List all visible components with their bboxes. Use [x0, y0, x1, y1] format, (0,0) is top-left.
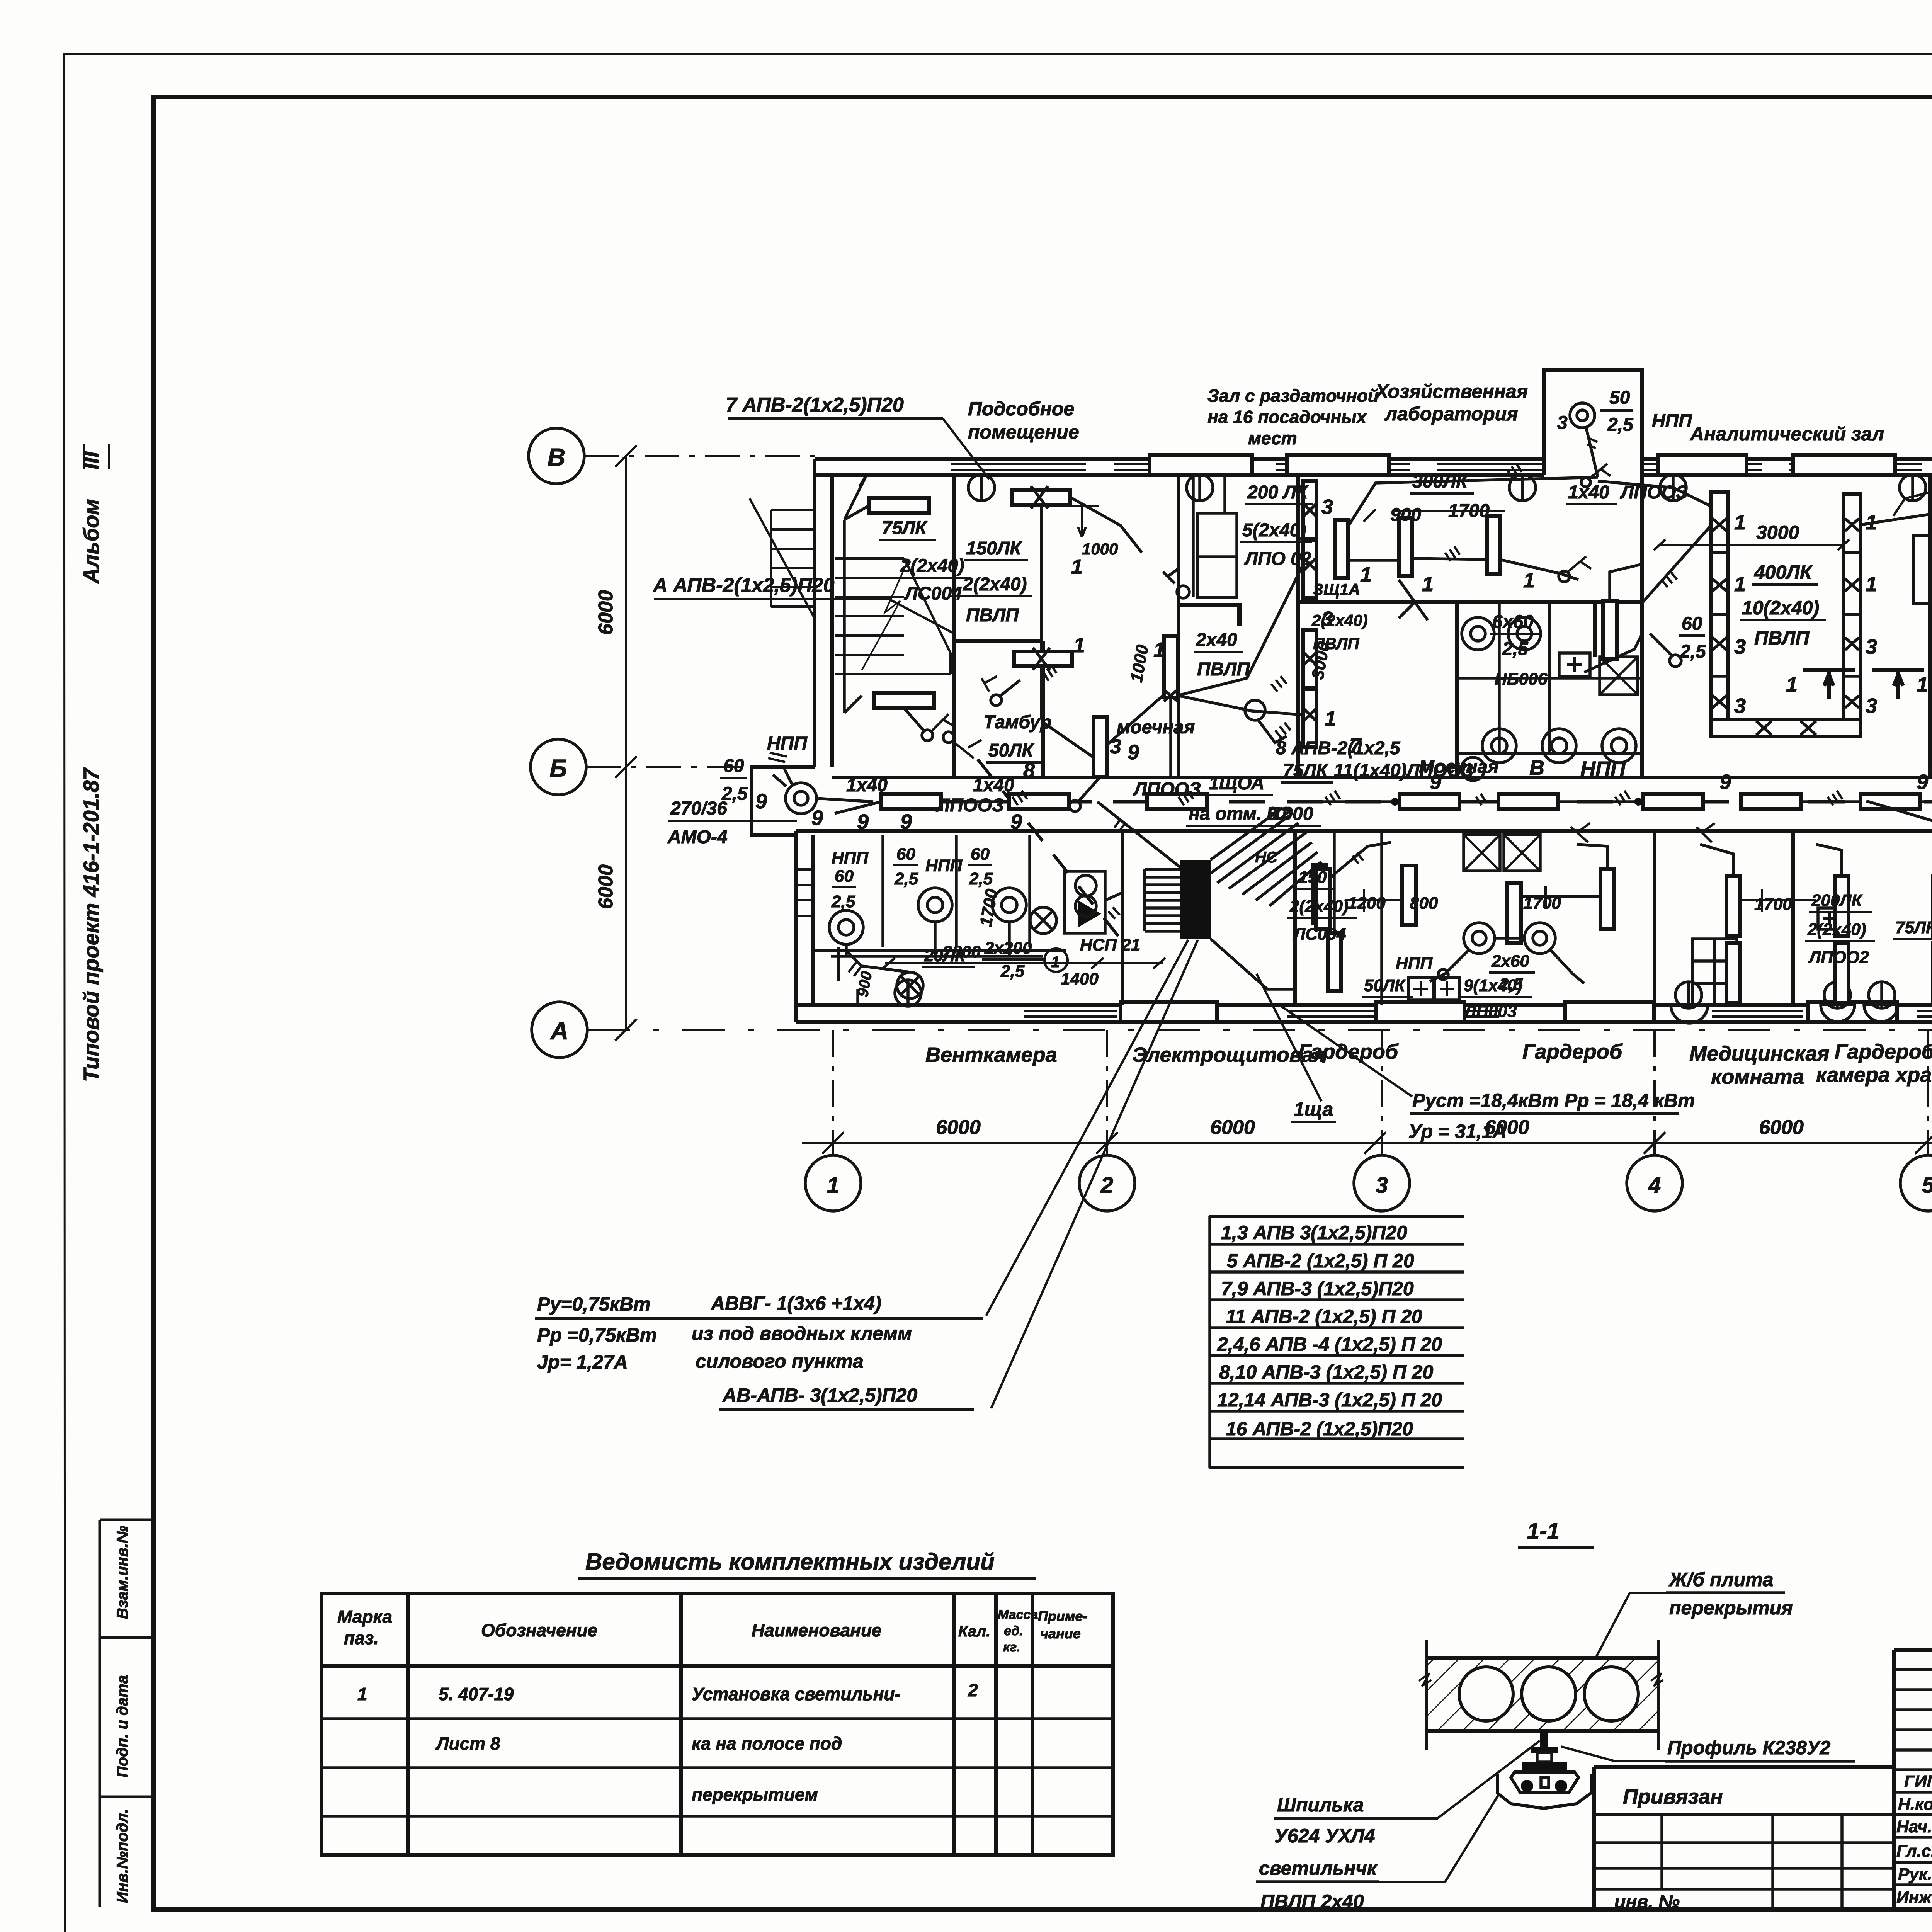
- svg-text:2,5: 2,5: [894, 869, 918, 888]
- svg-text:7 АПВ-2(1х2,5)П20: 7 АПВ-2(1х2,5)П20: [726, 394, 904, 416]
- svg-text:ЛПООЗ: ЛПООЗ: [936, 795, 1004, 816]
- svg-text:5: 5: [1922, 1173, 1932, 1198]
- svg-text:ЛС004: ЛС004: [1293, 925, 1346, 944]
- svg-text:ЗЩ1А: ЗЩ1А: [1313, 580, 1360, 599]
- ventkamera labels: [831, 845, 1140, 998]
- washroom block walls: [1298, 602, 1642, 777]
- svg-text:2: 2: [968, 1680, 978, 1700]
- lab room fixtures: [1335, 509, 1591, 582]
- svg-text:ка на полосе под: ка на полосе под: [692, 1733, 842, 1753]
- roof box protrusion top center: [1544, 370, 1642, 475]
- svg-text:на 16 посадочных: на 16 посадочных: [1207, 407, 1367, 427]
- svg-text:1ща: 1ща: [1294, 1099, 1333, 1120]
- partition med/garderob2: [1791, 831, 1795, 1005]
- svg-text:2,5: 2,5: [831, 892, 855, 911]
- analytic labels: [1734, 482, 1932, 718]
- top left cable label: [726, 394, 904, 416]
- bottom exterior wall left part: [796, 1005, 1932, 1022]
- svg-text:Электрощитовая: Электрощитовая: [1132, 1043, 1326, 1066]
- svg-text:Ж/б плита: Ж/б плита: [1668, 1569, 1774, 1590]
- svg-text:Ведомисть комплектных изделий: Ведомисть комплектных изделий: [585, 1549, 995, 1575]
- podsobnoe labels: [961, 538, 1201, 799]
- zal labels: [1153, 482, 1336, 730]
- svg-text:Наименование: Наименование: [752, 1620, 882, 1640]
- electro labels: [1255, 849, 1413, 997]
- analytic dim 3000 line: [1654, 539, 1849, 550]
- svg-text:из под вводных клемм: из под вводных клемм: [692, 1323, 912, 1344]
- room1 labels: [879, 518, 969, 604]
- svg-text:ЛПООЗ: ЛПООЗ: [1620, 482, 1688, 503]
- svg-text:1: 1: [1153, 638, 1165, 662]
- svg-text:паз.: паз.: [344, 1628, 379, 1648]
- svg-text:1,3 АПВ 3(1х2,5)П20: 1,3 АПВ 3(1х2,5)П20: [1221, 1222, 1407, 1243]
- svg-text:Гл.спец.: Гл.спец.: [1896, 1842, 1932, 1861]
- analytic U luminaire right column: [1844, 494, 1861, 735]
- svg-text:5. 407-19: 5. 407-19: [439, 1684, 514, 1704]
- svg-text:инв. №: инв. №: [1614, 1892, 1680, 1912]
- svg-text:Привязан: Привязан: [1623, 1785, 1723, 1808]
- dashed wire across corridor from room1: [978, 759, 1121, 939]
- cable list table: [1209, 1216, 1464, 1468]
- hanging luminaire in section: [1497, 1731, 1591, 1808]
- vertical dimension line with 6000 marks: [595, 445, 637, 1041]
- power note under plan: [1291, 1090, 1695, 1142]
- left corridor annex: [752, 767, 815, 835]
- partition ventkamera/electro: [1121, 831, 1124, 1005]
- svg-text:2(2х40): 2(2х40): [1311, 611, 1368, 629]
- svg-text:400ЛК: 400ЛК: [1754, 561, 1813, 583]
- svg-text:1: 1: [357, 1684, 367, 1704]
- svg-text:Альбом: Альбом: [79, 499, 103, 584]
- svg-text:Нач.отд.: Нач.отд.: [1896, 1817, 1932, 1836]
- svg-text:1: 1: [1422, 573, 1434, 596]
- svg-text:Венткамера: Венткамера: [925, 1043, 1057, 1066]
- svg-text:4: 4: [1648, 1173, 1661, 1198]
- svg-text:Взам.инв.№: Взам.инв.№: [114, 1526, 131, 1619]
- svg-text:У624 УХЛ4: У624 УХЛ4: [1274, 1825, 1375, 1847]
- corridor wiring dashed run: [881, 800, 1932, 804]
- svg-text:1ЩОА: 1ЩОА: [1209, 773, 1264, 794]
- svg-text:75ЛК: 75ЛК: [882, 518, 928, 538]
- svg-text:1000: 1000: [1082, 540, 1118, 558]
- svg-text:60: 60: [835, 867, 854, 886]
- svg-text:Ру=0,75кВт: Ру=0,75кВт: [537, 1293, 651, 1315]
- partition electro/garderob: [1293, 831, 1297, 1005]
- svg-text:Приме-: Приме-: [1038, 1608, 1088, 1624]
- garderob2 fixtures: [1816, 827, 1932, 1003]
- left cable label: [652, 574, 835, 597]
- partition lab/analytic: [1640, 475, 1644, 777]
- zal luminaire column right: [1303, 481, 1316, 747]
- svg-text:ПВЛП 2х40: ПВЛП 2х40: [1260, 1891, 1364, 1912]
- svg-text:60: 60: [1682, 614, 1702, 634]
- svg-text:75ЛК: 75ЛК: [1895, 918, 1932, 937]
- svg-text:Зал с раздаточной: Зал с раздаточной: [1207, 386, 1379, 406]
- shower X box: [1600, 657, 1638, 695]
- svg-text:7: 7: [1349, 734, 1362, 757]
- svg-text:1: 1: [1866, 573, 1877, 596]
- partition podsobnoe/zal: [1177, 475, 1180, 777]
- svg-text:1х40: 1х40: [973, 775, 1014, 796]
- detail leaders and labels: [1256, 1569, 1855, 1912]
- svg-text:Ур = 31,1А: Ур = 31,1А: [1408, 1121, 1507, 1142]
- svg-text:Шпилька: Шпилька: [1277, 1794, 1364, 1816]
- svg-text:Марка: Марка: [337, 1607, 392, 1627]
- svg-text:НПП: НПП: [767, 733, 808, 754]
- svg-text:НПП: НПП: [1396, 954, 1433, 973]
- svg-text:60: 60: [971, 845, 990, 864]
- corridor upper wall: [832, 776, 1932, 779]
- svg-text:светильнчк: светильнчк: [1259, 1857, 1378, 1879]
- svg-text:III: III: [79, 451, 103, 469]
- svg-text:1: 1: [827, 1173, 839, 1198]
- svg-text:1х40: 1х40: [846, 775, 888, 796]
- wire into analytic: [1642, 493, 1932, 667]
- electroshchitovaya fixtures right: [1211, 831, 1341, 991]
- svg-text:150ЛК: 150ЛК: [966, 538, 1022, 559]
- svg-text:2,4,6 АПВ -4 (1х2,5) П 20: 2,4,6 АПВ -4 (1х2,5) П 20: [1217, 1333, 1442, 1355]
- svg-text:3: 3: [1321, 495, 1333, 519]
- svg-text:200 ЛК: 200 ЛК: [1247, 482, 1309, 503]
- svg-text:2,5: 2,5: [1502, 639, 1529, 659]
- med labels: [1754, 891, 1932, 967]
- svg-text:Хозяйственная: Хозяйственная: [1374, 381, 1528, 402]
- svg-text:900: 900: [1390, 505, 1421, 525]
- svg-text:Гардероб: Гардероб: [1522, 1040, 1623, 1063]
- garderob labels: [1348, 894, 1561, 1021]
- partition zal/lab: [1296, 475, 1300, 777]
- svg-text:АВВГ- 1(3х6 +1х4): АВВГ- 1(3х6 +1х4): [710, 1293, 881, 1314]
- svg-text:ед.: ед.: [1004, 1624, 1023, 1638]
- vedomost table text: [337, 1607, 1088, 1804]
- svg-text:3000: 3000: [1756, 522, 1799, 543]
- svg-text:А: А: [550, 1017, 568, 1045]
- svg-text:ЛП003: ЛП003: [1463, 1002, 1517, 1021]
- top wall windows: [951, 464, 1932, 470]
- svg-text:1: 1: [1073, 634, 1085, 657]
- svg-text:2х200: 2х200: [984, 939, 1032, 957]
- svg-text:1700: 1700: [1754, 895, 1792, 914]
- lower-left block wall: [796, 831, 813, 1022]
- svg-text:1: 1: [1523, 569, 1535, 592]
- svg-text:ПВЛП: ПВЛП: [966, 605, 1019, 626]
- signature names: [1896, 1772, 1932, 1907]
- svg-text:ЛПОО2: ЛПОО2: [1808, 948, 1869, 967]
- svg-text:9: 9: [1128, 741, 1139, 764]
- svg-text:перекрытием: перекрытием: [692, 1784, 818, 1804]
- svg-text:2,5: 2,5: [969, 869, 993, 888]
- vedomost table grid: [321, 1594, 1113, 1855]
- exterior stair left: [750, 498, 815, 618]
- svg-text:Масса: Масса: [998, 1607, 1038, 1622]
- wire diagonals left corridor: [835, 798, 1932, 867]
- svg-text:50ЛК: 50ЛК: [988, 740, 1034, 761]
- svg-text:ЛПООЗ: ЛПООЗ: [1133, 779, 1201, 799]
- svg-text:НСП 21: НСП 21: [1080, 935, 1140, 954]
- svg-text:моечная: моечная: [1117, 717, 1195, 738]
- svg-text:60: 60: [723, 756, 744, 776]
- corridor labels: [720, 706, 1932, 974]
- svg-text:1700: 1700: [1523, 894, 1561, 913]
- svg-text:1х40: 1х40: [1568, 482, 1609, 503]
- bottom wall window sashes: [1121, 1002, 1897, 1022]
- arc door under security: [1671, 1005, 1898, 1023]
- svg-text:270/36: 270/36: [670, 798, 727, 819]
- svg-text:1: 1: [1734, 573, 1746, 596]
- left cable label leader A: [654, 599, 954, 634]
- svg-text:6000: 6000: [595, 590, 617, 635]
- svg-text:Инжен.: Инжен.: [1896, 1888, 1932, 1907]
- room1 luminaire top: [844, 473, 929, 713]
- svg-text:6000: 6000: [595, 864, 617, 909]
- svg-text:1: 1: [1734, 511, 1746, 534]
- svg-text:В: В: [1529, 756, 1544, 779]
- vedomost title: [578, 1549, 1036, 1578]
- zal shaft and closets: [1163, 476, 1239, 626]
- svg-text:2: 2: [1100, 1173, 1113, 1198]
- building top exterior wall: [815, 459, 1932, 475]
- analytic U bottom row: [1711, 719, 1861, 736]
- svg-text:2(2х40): 2(2х40): [963, 574, 1027, 595]
- svg-text:800: 800: [1410, 894, 1438, 913]
- svg-text:силового пункта: силового пункта: [696, 1350, 864, 1372]
- svg-text:2х40: 2х40: [1196, 630, 1237, 650]
- svg-text:2(2х40): 2(2х40): [900, 556, 964, 576]
- left exterior wall: [815, 459, 832, 767]
- svg-text:1200: 1200: [1348, 894, 1386, 913]
- svg-text:Руст =18,4кВт Рр = 18,4 кВт: Руст =18,4кВт Рр = 18,4 кВт: [1412, 1090, 1695, 1111]
- interior stair left: [835, 558, 951, 674]
- svg-text:НПП: НПП: [1652, 411, 1692, 431]
- power feed notes: [535, 1293, 983, 1410]
- bottom room names: [925, 1032, 1932, 1088]
- svg-text:1: 1: [1051, 954, 1060, 971]
- svg-text:НБ006: НБ006: [1495, 670, 1548, 689]
- svg-text:9: 9: [1010, 810, 1022, 833]
- vesovaya closet: [1913, 536, 1930, 604]
- svg-text:на отм. 3.000: на отм. 3.000: [1189, 804, 1313, 824]
- axis circle Б: [531, 739, 815, 795]
- svg-text:Рук. гр..: Рук. гр..: [1898, 1865, 1932, 1884]
- svg-text:2,5: 2,5: [1000, 962, 1025, 981]
- partition analytic/vesovaya: [1928, 475, 1932, 777]
- svg-text:Подп. и дата: Подп. и дата: [114, 1675, 131, 1777]
- wire top lab row: [1349, 463, 1711, 526]
- top-left cable label leader: [728, 418, 989, 479]
- svg-text:16 АПВ-2 (1х2,5)П20: 16 АПВ-2 (1х2,5)П20: [1226, 1418, 1413, 1440]
- section detail 1-1: [1518, 1519, 1594, 1548]
- svg-text:6000: 6000: [936, 1116, 981, 1139]
- bottom wall windows left: [1024, 1011, 1932, 1017]
- svg-text:ГИП: ГИП: [1904, 1772, 1932, 1791]
- svg-text:НС: НС: [1255, 849, 1278, 866]
- svg-text:мест: мест: [1248, 428, 1297, 448]
- svg-text:150: 150: [1298, 868, 1327, 887]
- med room fixtures: [1696, 823, 1841, 1003]
- corridor lower wall: [796, 829, 1932, 833]
- svg-text:5 АПВ-2 (1х2,5) П 20: 5 АПВ-2 (1х2,5) П 20: [1227, 1250, 1414, 1272]
- svg-text:ЛПО 02: ЛПО 02: [1244, 549, 1311, 569]
- svg-text:комната: комната: [1711, 1065, 1804, 1088]
- svg-text:ПВЛП: ПВЛП: [1754, 627, 1810, 649]
- left annex labels: [667, 790, 823, 847]
- long cross wires right part: [1866, 769, 1932, 989]
- signature table grid: [1894, 1650, 1932, 1910]
- electroshchitovaya hatch shaft: [1211, 808, 1321, 906]
- leader lines from cabinet to notes: [986, 940, 1412, 1408]
- tambour walls: [954, 641, 1043, 777]
- left annex NPP lamp: [768, 753, 873, 814]
- ventkamera dims: [838, 947, 1165, 981]
- svg-text:2800: 2800: [942, 942, 981, 961]
- svg-text:11 АПВ-2 (1х2,5) П 20: 11 АПВ-2 (1х2,5) П 20: [1226, 1306, 1422, 1327]
- svg-text:2(2х40): 2(2х40): [1289, 897, 1349, 916]
- wire podsobnoe to wall lamp: [1070, 497, 1163, 746]
- svg-text:А АПВ-2(1х2,5)П20: А АПВ-2(1х2,5)П20: [652, 574, 835, 597]
- vertical sheet title: [79, 444, 109, 1082]
- svg-text:ЛС004: ЛС004: [904, 583, 962, 604]
- svg-text:9: 9: [1917, 770, 1928, 794]
- svg-text:Б: Б: [549, 754, 567, 782]
- svg-text:3: 3: [1376, 1173, 1388, 1198]
- axis circle A: [532, 1002, 1932, 1058]
- svg-text:Типовой проект 416-1-201.87: Типовой проект 416-1-201.87: [79, 767, 103, 1082]
- analytic U luminaire left column: [1711, 492, 1728, 735]
- svg-text:Рр =0,75кВт: Рр =0,75кВт: [537, 1324, 657, 1346]
- svg-text:АВ-АПВ- 3(1х2,5)П20: АВ-АПВ- 3(1х2,5)П20: [722, 1384, 917, 1406]
- svg-text:помещение: помещение: [968, 421, 1079, 443]
- svg-text:1: 1: [1917, 673, 1928, 696]
- column axis circles 1-6: [805, 1030, 1932, 1211]
- nagrev lamp right of washroom: [1603, 564, 1642, 659]
- svg-text:3: 3: [1866, 635, 1877, 658]
- svg-text:300ЛК: 300ЛК: [1412, 471, 1469, 492]
- svg-text:5(2х40): 5(2х40): [1242, 520, 1306, 541]
- svg-text:1-1: 1-1: [1527, 1519, 1560, 1544]
- svg-text:6000: 6000: [1210, 1116, 1255, 1139]
- svg-text:9: 9: [755, 790, 767, 813]
- ventkamera lamps: [829, 875, 1122, 1005]
- room1 luminaire bottom with switches: [844, 693, 981, 758]
- svg-text:8 АПВ-2(1х2,5: 8 АПВ-2(1х2,5: [1276, 738, 1401, 759]
- svg-text:НПП: НПП: [1580, 757, 1626, 781]
- svg-text:2(2х40): 2(2х40): [1807, 920, 1866, 939]
- svg-text:кг.: кг.: [1003, 1640, 1020, 1655]
- svg-text:9(1х40): 9(1х40): [1464, 976, 1522, 995]
- svg-text:камера хранения: камера хранения: [1816, 1063, 1932, 1087]
- svg-text:1: 1: [1071, 555, 1083, 578]
- svg-text:9: 9: [900, 810, 912, 833]
- svg-text:1: 1: [1786, 673, 1798, 696]
- garderob1 fixtures: [1316, 823, 1614, 1000]
- svg-text:Кал.: Кал.: [958, 1623, 990, 1640]
- wire via washroom: [1399, 580, 1642, 672]
- podsobnoe luminaires: [981, 486, 1107, 811]
- lab labels: [1308, 471, 1706, 777]
- svg-text:В: В: [548, 443, 565, 471]
- svg-text:1700: 1700: [1448, 501, 1490, 521]
- svg-text:9: 9: [1719, 770, 1731, 794]
- svg-text:Медицинская: Медицинская: [1689, 1042, 1829, 1065]
- svg-text:Подсобное: Подсобное: [968, 398, 1074, 420]
- svg-text:12,14 АПВ-3 (1х2,5) П 20: 12,14 АПВ-3 (1х2,5) П 20: [1217, 1389, 1442, 1411]
- svg-text:1: 1: [1360, 563, 1372, 586]
- svg-text:1: 1: [1325, 707, 1336, 730]
- axis circle B: [529, 428, 815, 484]
- svg-text:Обозначение: Обозначение: [481, 1620, 597, 1640]
- svg-text:9: 9: [857, 810, 869, 833]
- svg-text:9: 9: [1430, 770, 1441, 794]
- left lower table privyazan: [1594, 1767, 1894, 1912]
- partition room1/podsobnoe: [952, 475, 956, 777]
- slab with hollow cores: [1419, 1640, 1663, 1750]
- svg-text:Профиль К238У2: Профиль К238У2: [1667, 1737, 1831, 1759]
- svg-text:6000: 6000: [1759, 1116, 1804, 1139]
- corridor wire hatches: [1012, 791, 1932, 805]
- svg-text:75ЛК: 75ЛК: [1283, 760, 1329, 781]
- svg-text:2,5: 2,5: [1680, 641, 1706, 662]
- svg-text:Гардероб и: Гардероб и: [1835, 1040, 1932, 1063]
- roofbox label: [1557, 388, 1692, 435]
- bottom dimension line: [802, 1116, 1932, 1154]
- svg-text:3: 3: [1110, 735, 1121, 758]
- svg-text:8,10 АПВ-3 (1х2,5) П 20: 8,10 АПВ-3 (1х2,5) П 20: [1219, 1361, 1433, 1383]
- ceiling hook symbols on top wall: [895, 474, 1926, 1008]
- svg-text:9: 9: [811, 806, 823, 830]
- svg-text:Н.контр: Н.контр: [1898, 1795, 1932, 1814]
- corridor luminaires: [881, 794, 1932, 809]
- med closet grid: [1692, 939, 1737, 1005]
- svg-text:Установка светильни-: Установка светильни-: [692, 1684, 901, 1704]
- ventkamera inner cells: [813, 835, 1105, 951]
- svg-text:200ЛК: 200ЛК: [1811, 891, 1863, 910]
- svg-text:ПВЛП: ПВЛП: [1197, 659, 1250, 680]
- svg-text:Jр= 1,27А: Jр= 1,27А: [537, 1351, 628, 1373]
- svg-text:8: 8: [1023, 759, 1035, 782]
- svg-text:АМО-4: АМО-4: [667, 827, 728, 847]
- svg-text:Инв.№подл.: Инв.№подл.: [114, 1809, 131, 1903]
- svg-text:чание: чание: [1040, 1626, 1081, 1641]
- svg-text:Лист 8: Лист 8: [435, 1733, 500, 1753]
- left margin stamp cells: [100, 1520, 153, 1907]
- zal lamp 2x40: [1164, 564, 1304, 777]
- svg-text:3: 3: [1734, 694, 1746, 718]
- svg-text:6х60: 6х60: [1492, 612, 1534, 632]
- svg-text:10(2х40): 10(2х40): [1742, 597, 1819, 619]
- svg-text:3: 3: [1928, 482, 1932, 505]
- analytic exhaust T symbols: [1803, 670, 1924, 699]
- partition garderob axis3: [1380, 831, 1383, 1005]
- svg-text:60: 60: [896, 845, 915, 864]
- room name labels above plan: [968, 381, 1932, 448]
- svg-text:2х60: 2х60: [1491, 952, 1529, 971]
- svg-text:НПП: НПП: [832, 849, 869, 867]
- svg-text:Тамбур: Тамбур: [983, 712, 1051, 733]
- svg-text:2,5: 2,5: [1607, 415, 1634, 435]
- svg-text:3: 3: [1734, 635, 1746, 658]
- svg-text:11(1х40)ЛПООЗ: 11(1х40)ЛПООЗ: [1334, 760, 1474, 781]
- svg-text:3: 3: [1866, 694, 1877, 718]
- svg-text:Аналитический зал: Аналитический зал: [1689, 423, 1884, 445]
- top wall window sashes: [1150, 455, 1932, 475]
- washroom equipment circles: [1461, 617, 1636, 781]
- svg-text:1: 1: [1866, 511, 1877, 534]
- svg-text:50ЛК: 50ЛК: [1364, 976, 1406, 995]
- svg-text:3: 3: [1557, 413, 1568, 433]
- svg-text:1400: 1400: [1061, 969, 1099, 988]
- svg-text:Гардероб: Гардероб: [1298, 1040, 1399, 1063]
- svg-text:перекрытия: перекрытия: [1669, 1597, 1793, 1619]
